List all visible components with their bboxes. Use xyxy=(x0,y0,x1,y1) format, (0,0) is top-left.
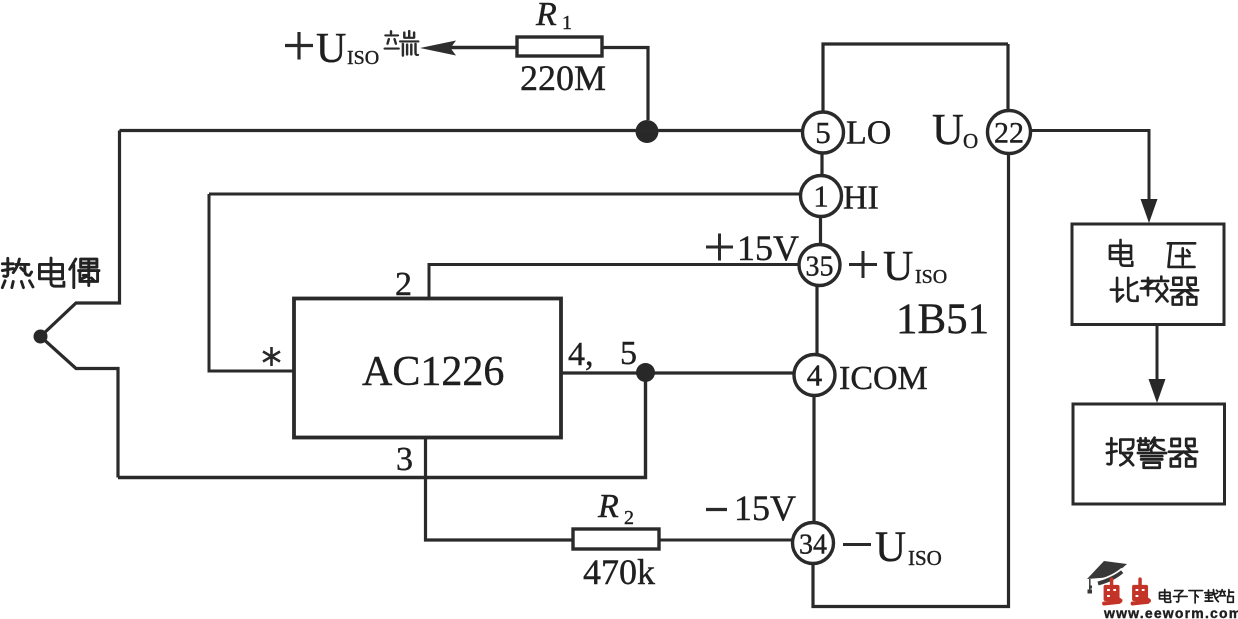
svg-text:R: R xyxy=(535,0,557,33)
svg-text:ISO: ISO xyxy=(908,546,942,570)
svg-text:22: 22 xyxy=(994,117,1024,150)
wire from +Uiso arrow to resistor R1 xyxy=(450,46,517,49)
watermark 电子下载站 xyxy=(1159,589,1233,602)
pin label +Uiso xyxy=(849,251,877,278)
pin 2 wire to +15V rail xyxy=(429,265,799,299)
glyph duan 端 xyxy=(385,31,419,56)
pin 35 circle xyxy=(799,245,840,286)
svg-text:ISO: ISO xyxy=(347,47,379,69)
pin label -Uiso xyxy=(843,543,871,546)
arrowhead into alarm xyxy=(1149,379,1166,403)
pin 1 circle xyxy=(801,176,842,217)
isolation amp block 1B51 outline xyxy=(813,44,1009,607)
svg-text:O: O xyxy=(963,129,978,153)
op-amp block AC1226 xyxy=(294,299,561,438)
label -15V xyxy=(706,508,727,511)
svg-text:2: 2 xyxy=(395,266,412,303)
svg-text:ISO: ISO xyxy=(915,266,947,288)
wire Uo to comparator xyxy=(1031,131,1150,201)
svg-text:34: 34 xyxy=(799,530,827,561)
pin 34 circle xyxy=(793,523,834,564)
wire bottom return loop xyxy=(118,373,646,478)
resistor R2 xyxy=(573,529,659,549)
svg-text:3: 3 xyxy=(396,441,413,478)
pin 22 circle xyxy=(988,111,1031,154)
junction dot at ICOM wire xyxy=(636,363,655,382)
comparator block 电压比较器 xyxy=(1072,224,1224,325)
svg-text:2: 2 xyxy=(624,507,634,529)
svg-text:ICOM: ICOM xyxy=(839,360,928,397)
svg-text:U: U xyxy=(316,26,346,72)
svg-text:U: U xyxy=(875,524,906,571)
svg-text:1: 1 xyxy=(562,12,572,34)
svg-text:www.eeworm.com: www.eeworm.com xyxy=(1103,605,1238,619)
svg-text:U: U xyxy=(883,244,913,290)
arrowhead to +Uiso terminal xyxy=(420,41,456,56)
svg-text:AC1226: AC1226 xyxy=(362,349,504,395)
watermark 虫虫 red xyxy=(1104,579,1149,603)
wire R2 to pin 34 xyxy=(659,539,793,542)
pin 3 wire down xyxy=(426,438,574,541)
junction dot at LO wire xyxy=(636,120,659,143)
watermark logo graduation cap xyxy=(1087,561,1127,594)
label +Uiso terminal xyxy=(285,32,313,60)
svg-text:LO: LO xyxy=(846,115,891,152)
label +15V xyxy=(706,234,733,261)
svg-text:4: 4 xyxy=(807,358,823,393)
pin 5 circle xyxy=(803,112,844,153)
wire * input vertical xyxy=(209,194,294,371)
svg-text:470k: 470k xyxy=(583,552,655,592)
label 热电偶 xyxy=(2,258,99,288)
svg-text:15V: 15V xyxy=(737,228,799,268)
pin label * xyxy=(263,347,280,366)
wire comparator to alarm xyxy=(1156,325,1159,381)
svg-text:4,: 4, xyxy=(568,336,594,373)
pin 4,5 wire to ICOM xyxy=(561,371,794,374)
svg-text:1B51: 1B51 xyxy=(896,296,989,343)
svg-text:5: 5 xyxy=(620,335,637,372)
thermocouple symbol xyxy=(34,131,120,478)
svg-text:1: 1 xyxy=(813,179,829,214)
svg-text:220M: 220M xyxy=(520,58,606,98)
svg-text:15V: 15V xyxy=(734,488,796,528)
wire R1 right to corner xyxy=(602,48,648,121)
wire HI net xyxy=(209,193,800,196)
arrowhead into comparator xyxy=(1141,199,1158,223)
alarm block 报警器 xyxy=(1073,404,1225,504)
svg-text:U: U xyxy=(932,105,964,154)
pin 4 circle xyxy=(794,355,835,396)
svg-text:HI: HI xyxy=(843,180,879,217)
resistor R1 xyxy=(517,37,602,56)
svg-text:R: R xyxy=(597,488,619,525)
svg-text:5: 5 xyxy=(815,115,831,150)
svg-text:35: 35 xyxy=(806,252,834,283)
wire LO net xyxy=(120,129,803,132)
